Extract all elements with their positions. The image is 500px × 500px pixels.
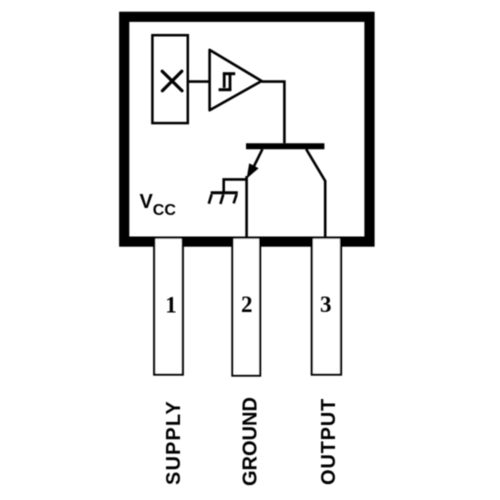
svg-text:SUPPLY: SUPPLY (163, 400, 185, 485)
svg-text:CC: CC (153, 202, 177, 219)
svg-text:GROUND: GROUND (240, 397, 262, 486)
svg-text:1: 1 (165, 293, 177, 318)
svg-text:3: 3 (320, 292, 332, 317)
svg-text:V: V (140, 191, 154, 213)
svg-text:OUTPUT: OUTPUT (318, 398, 340, 485)
svg-text:2: 2 (241, 292, 253, 317)
